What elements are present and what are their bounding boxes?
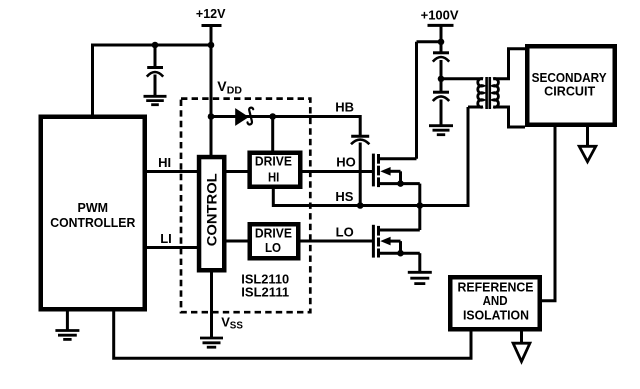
svg-text:ISL2111: ISL2111 bbox=[241, 286, 289, 300]
capacitor CB (bootstrap) bbox=[351, 136, 369, 205]
dashed IC boundary ISL2110/ISL2111 bbox=[181, 99, 310, 313]
capacitor C2 (bus upper) bbox=[433, 53, 449, 93]
label VSS bbox=[221, 315, 243, 332]
node: junction bypass cap bbox=[152, 42, 159, 49]
wire: top-left branch to PWM controller bbox=[93, 45, 212, 115]
DRIVE LO block bbox=[250, 224, 299, 258]
ground: below C3 bbox=[429, 126, 453, 135]
diode D1 (schottky bootstrap) bbox=[235, 108, 253, 126]
wire LO: DRIVE LO to Q2 gate bbox=[300, 240, 373, 243]
node: HS / bootstrap cap bbox=[357, 202, 364, 209]
+12V supply bar bbox=[196, 7, 226, 26]
svg-text:CONTROLLER: CONTROLLER bbox=[50, 215, 136, 230]
svg-text:HI: HI bbox=[268, 170, 279, 184]
node: HS / Q1 source Q2 drain bbox=[417, 202, 424, 209]
wire: PWM bottom to bottom rail to REFERENCE box bbox=[114, 310, 471, 359]
PWM controller block bbox=[41, 117, 145, 310]
ground: below PWM controller bbox=[55, 311, 79, 339]
ground: VSS bbox=[200, 338, 223, 347]
capacitor C3 (bus lower) bbox=[433, 92, 449, 125]
svg-text:PWM: PWM bbox=[78, 200, 109, 215]
svg-text:AND: AND bbox=[483, 294, 508, 308]
wire: VDD to HB (through diode) then down to bootstrap cap bbox=[211, 117, 360, 138]
svg-text:SS: SS bbox=[230, 321, 244, 332]
svg-text:LO: LO bbox=[265, 241, 281, 255]
svg-text:HB: HB bbox=[335, 100, 354, 115]
node: Q2 source/body bbox=[397, 250, 404, 257]
node: cap midpoint / primary top bbox=[438, 76, 445, 83]
svg-text:LI: LI bbox=[160, 231, 172, 246]
svg-text:HI: HI bbox=[158, 155, 171, 170]
svg-text:DRIVE: DRIVE bbox=[255, 155, 292, 169]
node: VDD junction bbox=[208, 113, 215, 120]
capacitor C1 (12V bypass) bbox=[147, 45, 163, 97]
wire LI: PWM to CONTROL bbox=[145, 246, 198, 249]
CONTROL block bbox=[199, 157, 224, 270]
wire: SECONDARY CIRCUIT down to REFERENCE AND ISOLATION bbox=[542, 127, 556, 301]
DRIVE HI block bbox=[250, 153, 301, 187]
wire HO: DRIVE HI to Q1 gate bbox=[302, 170, 373, 173]
wire: secondary bottom to SECONDARY CIRCUIT bbox=[493, 107, 525, 127]
svg-text:HS: HS bbox=[335, 189, 353, 204]
wire HS: DRIVE HI bottom to transformer primary bottom bbox=[273, 107, 468, 206]
SECONDARY CIRCUIT block bbox=[527, 46, 615, 125]
svg-text:+12V: +12V bbox=[196, 7, 226, 21]
wire: primary bottom bbox=[468, 106, 483, 109]
wire: +100V node to Q1 drain bbox=[417, 40, 442, 43]
node: Q1 source/body bbox=[397, 180, 404, 187]
svg-text:CONTROL: CONTROL bbox=[204, 173, 220, 246]
label ISL2110 / ISL2111 bbox=[241, 272, 289, 299]
wire: +100V stem bbox=[440, 25, 443, 52]
svg-text:ISL2110: ISL2110 bbox=[241, 272, 289, 286]
svg-text:REFERENCE: REFERENCE bbox=[458, 280, 534, 294]
ground: below C1 bbox=[144, 96, 167, 104]
wire: down to DRIVE HI top bbox=[271, 117, 274, 153]
svg-text:LO: LO bbox=[336, 224, 354, 239]
label VDD bbox=[217, 78, 242, 97]
transformer T1 bbox=[478, 77, 499, 109]
wire: secondary top to SECONDARY CIRCUIT bbox=[493, 49, 525, 79]
wire HI: PWM to CONTROL bbox=[145, 170, 198, 173]
transistor Q1 (high-side NMOS) bbox=[373, 42, 419, 206]
svg-text:DRIVE: DRIVE bbox=[255, 227, 292, 241]
wire: CONTROL to DRIVE HI bbox=[225, 170, 250, 173]
svg-text:ISOLATION: ISOLATION bbox=[463, 309, 529, 323]
svg-text:DD: DD bbox=[227, 85, 243, 97]
earth: below SECONDARY CIRCUIT bbox=[579, 127, 596, 162]
wire: CONTROL to DRIVE LO bbox=[225, 240, 250, 243]
REFERENCE AND ISOLATION block bbox=[450, 277, 540, 329]
wire: +12V rail down to CONTROL top bbox=[210, 26, 213, 156]
node: +100V junction bbox=[438, 39, 445, 46]
svg-text:SECONDARY: SECONDARY bbox=[532, 71, 608, 85]
transistor Q2 (low-side NMOS) bbox=[373, 206, 419, 273]
svg-text:HO: HO bbox=[336, 154, 356, 169]
wire: primary top bbox=[441, 77, 483, 80]
earth: below REFERENCE AND ISOLATION bbox=[513, 331, 530, 362]
node: junction +12V / top wire bbox=[208, 42, 215, 49]
svg-text:V: V bbox=[217, 78, 227, 94]
svg-text:+100V: +100V bbox=[421, 8, 459, 23]
svg-text:CIRCUIT: CIRCUIT bbox=[544, 85, 595, 99]
node: diode cathode / DRIVE HI feed bbox=[269, 113, 276, 120]
wire: CONTROL bottom to VSS ground bbox=[210, 271, 213, 338]
+100V supply bar bbox=[421, 8, 459, 26]
ground: Q2 source bbox=[408, 272, 432, 283]
